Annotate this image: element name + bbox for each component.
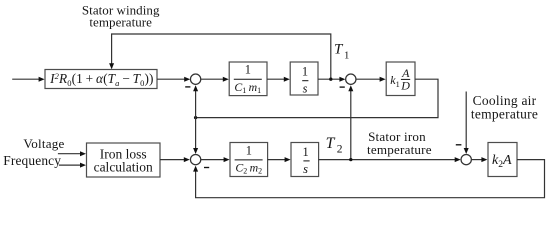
minus sign at summing junction 4: [456, 144, 462, 146]
arrowhead down into summing junction 4 top: [464, 148, 469, 154]
label: Cooling air temperature: [471, 93, 538, 122]
block: 1/(C2 m2): [230, 143, 268, 177]
arrowhead into 1/(C1m1): [223, 77, 229, 82]
wire: 1/(C1m1) to 1/s: [267, 78, 285, 80]
svg-text:calculation: calculation: [94, 160, 153, 175]
minus sign at summing junction 2: [340, 86, 345, 88]
wire: 1/(C2m2) to 1/s (row 2): [268, 159, 286, 161]
block: copper loss I^2 R0 (1+alpha(Ta-T0)): [45, 70, 157, 89]
arrowhead up into summing junction 1 bottom: [193, 85, 198, 91]
arrowhead into 1/s (row 2): [285, 157, 291, 162]
summing junction 3: [190, 154, 200, 164]
label: Stator iron temperature: [367, 129, 432, 157]
wire: summing junction 1 to 1/(C1m1): [201, 78, 223, 80]
arrowhead down into summing junction 3 top: [193, 148, 198, 154]
arrowhead up into summing junction 3 bottom: [193, 166, 198, 172]
wire: Voltage input arrow: [58, 153, 81, 155]
svg-text:1: 1: [246, 144, 252, 158]
node T2 junction dot: [349, 158, 352, 161]
svg-text:2: 2: [337, 144, 343, 156]
svg-text:k2A: k2A: [492, 153, 512, 170]
wire: k2A output feedback to summing junction 3 bottom: [196, 160, 545, 198]
arrowhead into copper-loss block left: [39, 77, 45, 82]
wire: Q12 up into summing junction 1: [195, 90, 197, 117]
arrowhead voltage into iron loss block: [80, 151, 86, 156]
arrowhead into summing junction 1: [184, 77, 190, 82]
wire: copper loss to summing junction 1: [157, 78, 185, 80]
wire: iron loss to summing junction 3: [160, 159, 185, 161]
wire: cooling air temperature down into summing junction 4: [465, 92, 467, 149]
wire: summing junction 2 to k1 A/D: [356, 78, 380, 80]
wire: main input current I: [12, 78, 39, 80]
block: integrator 1/s (row 2): [291, 143, 319, 177]
svg-text:C1 m1: C1 m1: [234, 80, 261, 95]
wire: k1 A/D output down and across to node Q12: [196, 79, 438, 117]
minus sign at summing junction 1: [185, 86, 190, 88]
svg-text:T: T: [326, 135, 336, 152]
arrowhead into summing junction 4: [455, 157, 461, 162]
arrowhead into summing junction 3: [184, 157, 190, 162]
svg-text:temperature: temperature: [367, 142, 432, 157]
svg-text:C2 m2: C2 m2: [235, 160, 262, 175]
node T1 junction dot: [329, 78, 332, 81]
block: 1/(C1 m1): [229, 62, 267, 96]
svg-text:D: D: [400, 78, 410, 92]
summing junction 2: [346, 74, 356, 84]
arrowhead up into summing junction 2 bottom: [348, 85, 353, 91]
node Q12 junction dot: [194, 116, 197, 119]
summing junction 1: [190, 74, 200, 84]
arrowhead frequency into iron loss block: [80, 163, 86, 168]
arrowhead into 1/(C2m2): [224, 157, 230, 162]
svg-text:1: 1: [344, 50, 349, 62]
label: Stator winding temperature: [82, 2, 160, 29]
summing junction 4: [461, 154, 471, 164]
svg-text:temperature: temperature: [471, 106, 538, 121]
svg-text:T: T: [334, 42, 344, 58]
wire: Frequency input arrow: [59, 164, 81, 166]
svg-text:1: 1: [302, 145, 308, 159]
wire: T1 feedback to top (from node T1 up, left, down into block top): [112, 34, 331, 79]
block: k1 A/D: [386, 62, 415, 96]
arrowhead into k1 A/D: [380, 77, 386, 82]
svg-text:I2R0(1 + α(Ta − T0)): I2R0(1 + α(Ta − T0)): [49, 71, 153, 88]
arrowhead into k2A: [481, 157, 487, 162]
svg-text:s: s: [303, 162, 308, 176]
block: integrator 1/s (row 1): [290, 62, 318, 96]
svg-text:Frequency: Frequency: [3, 153, 61, 168]
svg-text:temperature: temperature: [89, 15, 152, 30]
wire: T2 feedback up into summing junction 2: [350, 90, 352, 159]
svg-text:s: s: [303, 82, 308, 96]
wire: 1/s output to summing junction 4, node T2: [319, 159, 456, 161]
arrowhead into copper-loss block top: [109, 63, 114, 69]
arrowhead into 1/s (row 1): [284, 77, 290, 82]
wire: summing junction 3 to 1/(C2m2): [201, 159, 224, 161]
svg-text:1: 1: [245, 63, 251, 77]
wire: summing junction 4 to k2A: [472, 159, 483, 161]
arrowhead into summing junction 2: [339, 77, 345, 82]
block: k2 A: [488, 143, 517, 177]
wire: Q12 down into summing junction 3: [195, 118, 197, 149]
svg-text:Voltage: Voltage: [23, 136, 64, 151]
svg-text:1: 1: [302, 64, 308, 78]
block: Iron loss calculation: [87, 143, 161, 177]
minus sign at summing junction 3: [204, 167, 209, 169]
wire: 1/s output to summing junction 2, node T1: [318, 78, 340, 80]
